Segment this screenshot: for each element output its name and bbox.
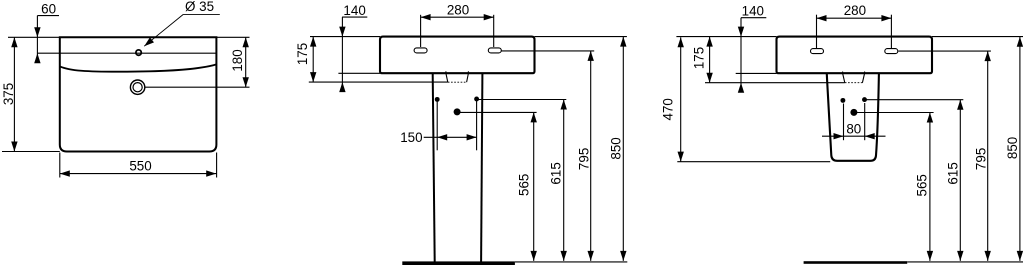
dim 795 arrow top (588, 51, 594, 61)
right drain line to 565 (854, 112, 934, 114)
tap hole (136, 50, 141, 55)
fixing hole left (435, 97, 440, 102)
dim 140 shoulder right (741, 17, 766, 19)
dim 280 arrow left (421, 14, 431, 20)
right slot line to 795 (898, 50, 991, 52)
dim 280 arrow right (484, 14, 494, 20)
svg-text:565: 565 (914, 174, 929, 196)
right floor bar (804, 261, 908, 264)
dim 795 arrow top right (985, 51, 991, 61)
svg-text:280: 280 (844, 3, 866, 18)
top ext line left (310, 36, 380, 38)
semi-pedestal outline (827, 74, 879, 161)
plan rear deck line (60) (37, 52, 216, 54)
dim 80 ext left (843, 104, 845, 141)
dim 375 ext bottom (2, 151, 60, 153)
drain hole (454, 108, 461, 115)
dim 615 arrow top right (957, 100, 963, 110)
dim 175 arrow bottom (310, 72, 316, 82)
svg-text:150: 150 (400, 130, 422, 145)
dim 550 arrow left (60, 170, 70, 176)
dim 280 ext left right (816, 15, 818, 48)
dim 550 line (60, 173, 217, 175)
dim 175 arrow top right (706, 37, 712, 47)
right tap slot right (885, 49, 898, 54)
dim 280 ext left (420, 15, 422, 47)
dim 140 arrow up (339, 82, 345, 92)
svg-text:565: 565 (516, 174, 531, 196)
right top ext line left (676, 36, 776, 38)
dim 615 line right (959, 100, 961, 261)
svg-text:550: 550 (129, 159, 151, 174)
dim 60 line (36, 16, 38, 62)
svg-text:175: 175 (692, 47, 707, 69)
dim 375 arrow top (11, 37, 17, 47)
dim 280 ext right (493, 15, 495, 47)
right trap side left (843, 73, 845, 82)
right tap slot left (811, 49, 824, 54)
dim 615 arrow top (561, 100, 567, 110)
dim 375 arrow bottom (11, 142, 17, 152)
dim 280 ext right right (890, 15, 892, 48)
dim 140 arrow down right (738, 27, 744, 37)
dim 280 line right (817, 17, 892, 19)
pedestal left edge (433, 74, 435, 262)
floor line middle (515, 261, 627, 263)
side view basin body (380, 37, 535, 74)
svg-text:795: 795 (974, 148, 989, 170)
trap bottom dashed (448, 81, 467, 83)
tap slot left (414, 48, 427, 53)
right trap nub right (864, 72, 866, 74)
overflow hole inner (133, 83, 142, 92)
dim 180 ext line overflow (145, 86, 250, 88)
hole line to 615 (477, 99, 567, 101)
dim 150 ext left (436, 102, 438, 151)
leader arrow D35 (144, 37, 154, 46)
right fixing hole right (862, 97, 867, 102)
dim 150 arrow left (437, 134, 447, 140)
dim 565 line right (929, 113, 931, 261)
dim 850 arrow bottom right (1017, 251, 1023, 261)
tap slot right (488, 48, 501, 53)
dim 60 arrow bottom (34, 53, 40, 63)
trap nub right (467, 71, 469, 73)
svg-text:140: 140 (343, 3, 365, 18)
dim 180 arrow bottom (243, 77, 249, 87)
right fixing hole left (840, 98, 845, 103)
dim 140 shoulder (342, 16, 367, 18)
dim 280 arrow right right (881, 15, 891, 21)
dim 60 shoulder line (37, 15, 59, 17)
dim 850 arrow bottom (620, 251, 626, 261)
right trap side right (862, 73, 864, 82)
dim 795 line right (987, 51, 989, 261)
dim 80 ext right (864, 103, 866, 140)
right rim bottom ref line (705, 82, 845, 84)
dim 175 line right (709, 37, 711, 83)
dim 80 arrow left (834, 133, 844, 139)
dim 375 line (13, 37, 15, 151)
plan bowl back edge curve (60, 64, 217, 71)
svg-text:850: 850 (1005, 137, 1020, 159)
basin underside ext line (338, 72, 380, 74)
rim bottom ref line (309, 81, 448, 83)
dim 175 line (312, 37, 314, 83)
dim 615 line (563, 100, 565, 261)
dim 795 arrow bottom (588, 251, 594, 261)
svg-text:140: 140 (742, 4, 764, 19)
svg-text:280: 280 (447, 2, 469, 17)
dim 140 line right (740, 18, 742, 92)
dim 795 line (590, 51, 592, 261)
dim 180 line (245, 37, 247, 87)
dim 280 arrow left right (817, 15, 827, 21)
dim 80 line (822, 135, 886, 137)
svg-text:470: 470 (661, 98, 676, 120)
dim 175 arrow bottom right (706, 73, 712, 83)
dim 550 arrow right (206, 170, 216, 176)
svg-text:615: 615 (945, 162, 960, 184)
svg-text:60: 60 (41, 1, 56, 16)
dim 150 ext right (476, 101, 478, 150)
right basin underside ext (736, 72, 777, 74)
dim 470 arrow top (678, 37, 684, 47)
pedestal base (402, 261, 515, 265)
dim 60 arrow top (34, 27, 40, 37)
dim 850 line right (1019, 37, 1021, 261)
leader line D35 (144, 15, 220, 47)
dim 375 ext top (8, 36, 60, 38)
dim 565 arrow top right (927, 113, 933, 123)
dim 280 line (421, 16, 494, 18)
trap side left (446, 73, 448, 82)
right hole line to 615 (865, 99, 964, 101)
overflow hole outer (130, 80, 144, 94)
trap nub left (445, 71, 447, 73)
svg-text:175: 175 (295, 43, 310, 65)
dim 565 arrow top (531, 112, 537, 122)
dim 795 arrow bottom right (985, 251, 991, 261)
dim 140 arrow down (339, 27, 345, 37)
dim 150 leader and line (424, 136, 477, 138)
svg-text:Ø 35: Ø 35 (185, 0, 214, 14)
trap side right (467, 73, 469, 82)
pedestal right edge (481, 74, 482, 262)
top ext line right to 850 (535, 36, 627, 38)
dim 565 arrow bottom right (927, 251, 933, 261)
right floor line (907, 261, 1023, 263)
svg-text:375: 375 (1, 83, 16, 105)
dim 565 arrow bottom (531, 251, 537, 261)
dim 550 ext right (216, 153, 218, 178)
right top ext line to 850 (932, 36, 1023, 38)
dim 140 line (341, 17, 343, 88)
slot line to 795 (501, 50, 594, 52)
right drain hole (850, 109, 857, 116)
dim 470 line (680, 37, 682, 161)
dim 850 line (622, 37, 624, 261)
washbasin plan outline 550x375 (60, 37, 217, 151)
dim 550 ext left (59, 153, 61, 178)
svg-text:795: 795 (576, 148, 591, 170)
svg-text:850: 850 (609, 137, 624, 159)
dim 850 arrow top (620, 37, 626, 47)
right trap nub left (842, 72, 844, 74)
dim 175 arrow top (310, 37, 316, 47)
svg-text:615: 615 (548, 162, 563, 184)
right trap bottom dashed (845, 82, 863, 84)
fixing hole right (474, 97, 479, 102)
svg-text:180: 180 (230, 49, 245, 71)
dim 565 line (533, 112, 535, 261)
dim 180 ext line top (216, 36, 249, 38)
dim 470 arrow bottom (678, 152, 684, 162)
dim 850 arrow top right (1017, 37, 1023, 47)
dim 470 ext bottom (677, 161, 830, 163)
dim 80 arrow right (865, 133, 875, 139)
svg-text:80: 80 (846, 121, 861, 136)
drain line to 565 (457, 111, 536, 113)
right basin body (777, 37, 933, 74)
dim 615 arrow bottom (561, 251, 567, 261)
dim 615 arrow bottom right (957, 251, 963, 261)
dim 150 arrow right (467, 134, 477, 140)
dim 140 arrow up right (738, 83, 744, 93)
dim 180 arrow top (243, 37, 249, 47)
